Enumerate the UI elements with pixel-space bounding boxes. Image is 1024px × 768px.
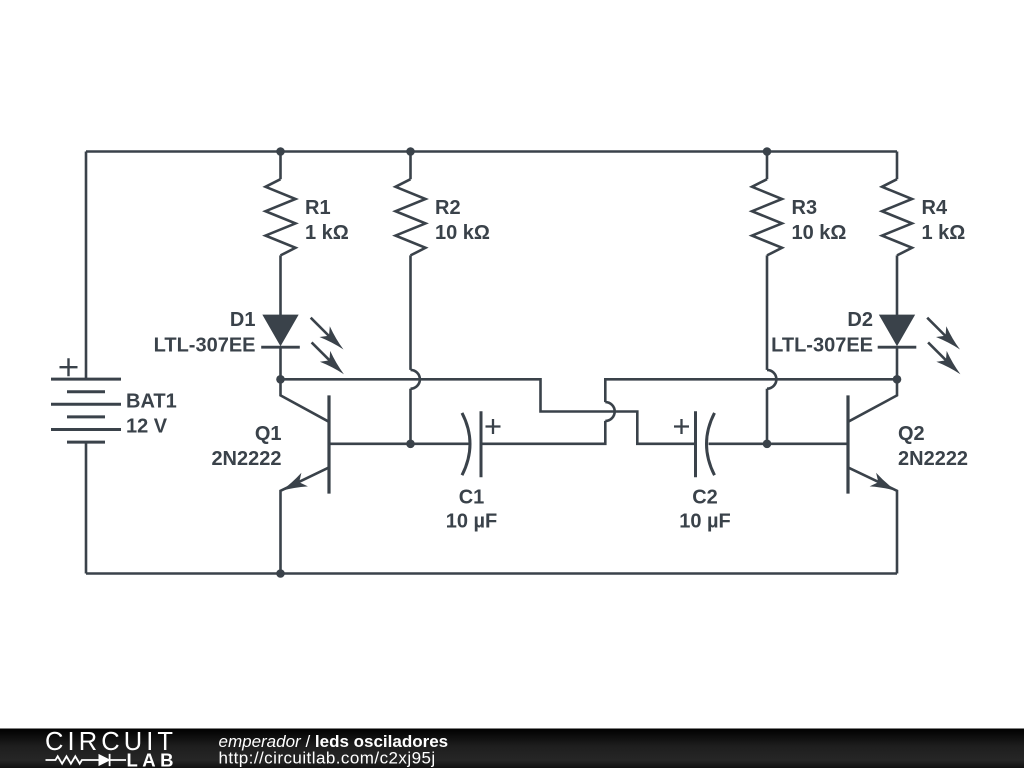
capacitor C1 plus mark: [486, 419, 501, 434]
capacitor C2 plates: [696, 411, 715, 477]
svg-text:Q1: Q1: [255, 423, 282, 445]
wire net A from D1 node to C2 left plate: [281, 379, 695, 444]
svg-text:LAB: LAB: [127, 750, 179, 768]
transistor Q1: [281, 379, 330, 573]
svg-text:1 kΩ: 1 kΩ: [922, 222, 966, 244]
footer url text: [219, 749, 436, 768]
LED D2 triangle: [880, 315, 915, 345]
wire D2 cathode lead: [896, 347, 899, 379]
footer bar: [0, 729, 1024, 768]
wire top supply rail: [86, 150, 897, 153]
wire D1 anode lead from resistor: [279, 255, 282, 315]
logo LAB text: [127, 750, 179, 768]
LED D1 cathode bar: [261, 346, 300, 349]
svg-text:10 kΩ: 10 kΩ: [792, 222, 847, 244]
wire Q2 base to node: [767, 442, 848, 445]
svg-text:R3: R3: [792, 197, 818, 219]
svg-text:R2: R2: [435, 197, 461, 219]
svg-text:2N2222: 2N2222: [898, 448, 968, 470]
logo CIRCUIT text: [45, 728, 177, 756]
svg-text:12 V: 12 V: [126, 416, 168, 438]
svg-text:D1: D1: [230, 309, 256, 331]
svg-text:10 µF: 10 µF: [446, 511, 498, 533]
wire Q1 base to node: [329, 442, 411, 445]
wire net B from D2 node down with hop over net A to C1 right plate: [482, 379, 897, 444]
svg-text:LTL-307EE: LTL-307EE: [154, 335, 256, 357]
capacitor C1 plates: [462, 411, 481, 477]
logo resistor-diode glyph: [46, 754, 127, 766]
svg-text:C2: C2: [692, 487, 718, 509]
LED D1 light arrows: [311, 318, 344, 375]
battery plus terminal mark: [60, 358, 78, 376]
wire D2 anode lead from resistor: [896, 255, 899, 315]
battery BAT1: [51, 379, 121, 442]
wire battery positive lead: [85, 152, 88, 380]
footer title text: [219, 732, 449, 751]
resistor R3: [752, 152, 782, 256]
svg-text:1 kΩ: 1 kΩ: [305, 222, 349, 244]
LED D2 cathode bar: [878, 346, 917, 349]
svg-text:2N2222: 2N2222: [211, 448, 281, 470]
capacitor C2 plus mark: [674, 419, 689, 434]
LED D2 light arrows: [927, 318, 960, 375]
svg-text:R1: R1: [305, 197, 331, 219]
wire D1 cathode lead: [279, 347, 282, 379]
resistor R1: [266, 152, 296, 256]
wire from R2 down to base node with hop over net A: [411, 255, 420, 443]
wire C2 right plate to base node: [709, 442, 768, 445]
svg-text:10 kΩ: 10 kΩ: [435, 222, 490, 244]
wire from R3 down to base node with hop over net B: [767, 255, 776, 443]
transistor Q2: [848, 379, 897, 573]
svg-text:BAT1: BAT1: [126, 391, 177, 413]
svg-text:C1: C1: [459, 487, 485, 509]
svg-text:http://circuitlab.com/c2xj95j: http://circuitlab.com/c2xj95j: [219, 749, 436, 768]
svg-text:D2: D2: [847, 309, 873, 331]
resistor R4: [882, 152, 912, 256]
svg-text:Q2: Q2: [898, 423, 925, 445]
resistor R2: [396, 152, 426, 256]
wire bottom ground rail: [86, 572, 897, 575]
svg-text:R4: R4: [922, 197, 948, 219]
LED D1 triangle: [263, 315, 298, 345]
svg-text:LTL-307EE: LTL-307EE: [771, 335, 873, 357]
wire battery negative lead: [85, 442, 88, 573]
svg-text:10 µF: 10 µF: [679, 511, 731, 533]
wire C1 left plate to base node: [411, 442, 469, 445]
